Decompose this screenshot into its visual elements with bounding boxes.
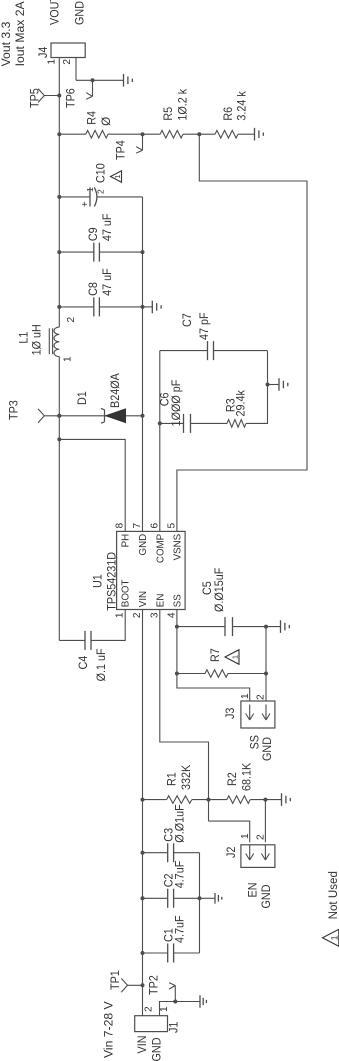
svg-text:Ø.1 uF: Ø.1 uF	[95, 648, 108, 681]
svg-text:EN: EN	[154, 594, 166, 608]
capacitor C4	[85, 631, 91, 650]
svg-text:C10: C10	[95, 163, 108, 183]
wire C1 top lead	[143, 952, 168, 954]
junction TP4 node	[141, 132, 145, 136]
wire C1 bottom lead	[174, 952, 200, 954]
svg-text:J4: J4	[37, 46, 50, 58]
ground at R2	[282, 793, 291, 806]
junction C9 / GND rail	[141, 250, 145, 254]
resistor R2 68.1K	[227, 796, 250, 804]
svg-text:47 uF: 47 uF	[101, 214, 114, 242]
wire J1 pin 1 to ground	[160, 1002, 200, 1016]
svg-text:Iout Max 2A: Iout Max 2A	[13, 0, 27, 66]
wire C3 top lead	[143, 852, 168, 854]
svg-text:SS: SS	[171, 594, 183, 607]
capacitor C9 47uF	[94, 243, 100, 262]
svg-text:BOOT: BOOT	[120, 579, 132, 607]
svg-text:J1: J1	[168, 1022, 181, 1033]
junction EN / R1 R2	[207, 798, 211, 802]
wire SS to C5	[177, 626, 225, 628]
svg-text:29.4k: 29.4k	[235, 390, 248, 417]
svg-text:GND: GND	[74, 1, 87, 25]
wire J3 pin 2 to C5 ground node	[265, 627, 267, 701]
svg-text:1: 1	[63, 356, 74, 362]
svg-text:2: 2	[96, 189, 106, 194]
wire J2 pin 2	[264, 800, 266, 843]
wire R2 to ground	[250, 799, 281, 801]
svg-text:VIN: VIN	[137, 591, 149, 607]
junction D1 anode / GND rail	[141, 414, 145, 418]
svg-text:1Ø uH: 1Ø uH	[31, 324, 44, 355]
wire VIN to R1	[143, 799, 167, 801]
svg-text:Ø.Ø15uF: Ø.Ø15uF	[213, 568, 226, 612]
junction TP5	[57, 94, 61, 98]
svg-text:VOUT: VOUT	[49, 0, 62, 25]
junction TP6	[91, 78, 95, 82]
test point TP3	[38, 409, 59, 423]
resistor R3 29.4k	[227, 420, 246, 428]
svg-text:TPS54231D: TPS54231D	[105, 552, 118, 611]
wire PH pin 8 riser	[59, 439, 125, 531]
svg-text:GND: GND	[151, 1038, 164, 1061]
svg-text:PH: PH	[120, 534, 132, 548]
capacitor C2 4.7uF	[168, 889, 174, 908]
wire input caps bottom rail	[199, 853, 201, 953]
connector J2 box	[241, 845, 275, 868]
junction C5 / SS-GND wire	[264, 625, 268, 629]
junction C3 / VIN rail	[141, 851, 145, 855]
svg-text:4.7uF: 4.7uF	[174, 915, 187, 943]
wire C9 bottom lead	[99, 251, 142, 253]
svg-text:C4: C4	[77, 655, 90, 669]
svg-text:+: +	[80, 201, 91, 207]
wire C5 to ground	[233, 626, 281, 628]
triangle not-used legend	[323, 929, 339, 946]
wire comp bottom	[246, 351, 268, 424]
jumper pin arrow (J2)	[261, 845, 269, 861]
wire C7 bottom lead	[214, 350, 268, 352]
capacitor C8 47uF	[94, 297, 100, 316]
svg-text:COMP: COMP	[154, 534, 166, 563]
svg-text:GND: GND	[260, 885, 273, 909]
wire EN to J2 pin 1	[209, 821, 250, 842]
junction C2 / ground	[198, 896, 202, 900]
resistor R4 0 ohm	[86, 130, 108, 138]
svg-text:68.1K: 68.1K	[241, 763, 254, 791]
wire VIN rail (J1 to pin2)	[142, 610, 144, 1016]
svg-text:U1: U1	[92, 574, 105, 588]
wire SS to R7	[177, 673, 205, 675]
junction C8 / VOUT rail	[57, 305, 61, 309]
wire J4 pin 2 to ground	[76, 79, 124, 81]
svg-text:2: 2	[132, 612, 143, 618]
ground at divider	[255, 128, 264, 141]
ground at J1	[200, 995, 206, 1007]
test point TP6	[86, 80, 92, 99]
junction COMP / C6 branch	[158, 421, 162, 425]
svg-text:1ØØØ pF: 1ØØØ pF	[170, 380, 183, 427]
svg-text:7: 7	[132, 523, 143, 529]
junction R1 / VIN rail	[141, 798, 145, 802]
wire C6 to R3	[191, 422, 228, 424]
svg-text:47 uF: 47 uF	[101, 268, 114, 296]
svg-text:C7: C7	[181, 313, 194, 327]
svg-text:J3: J3	[224, 708, 237, 719]
wire C8 top lead	[59, 306, 94, 308]
svg-text:332K: 332K	[180, 765, 193, 790]
junction PH riser / rail	[57, 437, 61, 441]
op-amp U1 TPS54231D box	[117, 531, 186, 609]
svg-text:2: 2	[62, 59, 73, 65]
junction TP1	[141, 983, 145, 987]
svg-text:1: 1	[240, 693, 251, 699]
resistor R5 10.2k	[160, 130, 183, 138]
wire C8 ground stem	[143, 306, 153, 308]
wire PH/VOUT rail (left of L1)	[58, 357, 60, 641]
wire C10 top lead	[59, 196, 90, 198]
svg-text:TP6: TP6	[65, 88, 78, 108]
wire C2 top lead	[143, 897, 168, 899]
junction divider / VOUT rail	[57, 132, 61, 136]
wire C9 top lead	[59, 251, 94, 253]
triangle not-used marker at R7	[225, 650, 239, 665]
svg-text:Vin 7-28 V: Vin 7-28 V	[102, 1000, 116, 1058]
wire input cap ground stem	[200, 897, 216, 899]
junction C10 / VOUT rail	[57, 195, 61, 199]
test point TP1	[121, 978, 142, 992]
connector J3 box	[241, 701, 275, 728]
wire GND rail (pin7 to C10)	[142, 197, 144, 532]
connector J4 box	[51, 43, 85, 58]
svg-text:1: 1	[240, 833, 251, 839]
svg-text:1: 1	[115, 612, 126, 618]
svg-text:2: 2	[66, 317, 77, 323]
wire R5 to R6	[183, 133, 215, 135]
svg-text:GND: GND	[261, 737, 274, 761]
resistor R6 3.24k	[215, 130, 238, 138]
svg-text:1: 1	[329, 935, 339, 940]
svg-text:C8: C8	[87, 282, 100, 296]
junction SS / R7	[175, 672, 179, 676]
svg-text:1: 1	[85, 187, 95, 192]
svg-text:R2: R2	[226, 772, 239, 786]
wire COMP to C6	[160, 422, 184, 424]
junction D1 cathode / PH rail	[57, 414, 61, 418]
svg-text:C9: C9	[87, 227, 100, 241]
ground at J4	[124, 74, 133, 87]
svg-text:1: 1	[47, 59, 58, 65]
svg-text:2: 2	[256, 694, 267, 700]
svg-text:5: 5	[166, 523, 177, 529]
wire C10 bottom lead	[97, 196, 143, 198]
svg-text:SS: SS	[249, 735, 262, 750]
svg-text:L1: L1	[18, 332, 31, 344]
svg-text:Ø.Ø1uF: Ø.Ø1uF	[174, 804, 187, 842]
wire C3 bottom lead	[174, 852, 200, 854]
svg-text:D1: D1	[76, 391, 89, 405]
svg-text:2: 2	[144, 1006, 155, 1012]
test point TP2	[169, 983, 175, 1002]
wire COMP pin 6	[159, 351, 161, 532]
wire R1 to R2	[192, 799, 227, 801]
svg-text:TP5: TP5	[29, 88, 42, 108]
svg-text:3: 3	[149, 612, 160, 618]
capacitor C5 0.015uF	[225, 617, 233, 636]
ground at C5	[281, 620, 290, 633]
wire C8 bottom lead	[99, 306, 142, 308]
wire comp ground stem	[268, 384, 280, 386]
svg-text:Ø: Ø	[100, 117, 113, 126]
svg-text:TP3: TP3	[8, 400, 21, 420]
ground at C8	[152, 301, 161, 314]
junction C2 / VIN rail	[141, 896, 145, 900]
svg-text:4: 4	[166, 612, 177, 618]
resistor R7 (not used)	[205, 670, 228, 678]
svg-text:1: 1	[113, 174, 122, 178]
svg-text:EN: EN	[247, 883, 260, 898]
junction feedback tap	[197, 132, 201, 136]
svg-text:TP1: TP1	[109, 970, 122, 990]
jumper pin arrow (J3)	[262, 705, 270, 721]
svg-text:R5: R5	[162, 107, 175, 121]
ground at comp network	[279, 378, 288, 391]
svg-text:R4: R4	[86, 110, 99, 124]
wire PH down to C4	[59, 639, 85, 641]
svg-text:1: 1	[159, 1006, 170, 1012]
triangle not-used marker at C10	[111, 171, 122, 182]
wire SS pin 4 to J3 pin 1	[177, 610, 250, 702]
svg-text:47 pF: 47 pF	[198, 312, 211, 340]
wire VOUT to R4	[59, 133, 86, 135]
wire R4 to R5	[108, 133, 160, 135]
capacitor C3 Ø.Ø1uF	[168, 843, 174, 862]
wire R7 to SS-GND wire	[228, 673, 266, 675]
svg-text:J2: J2	[225, 847, 238, 858]
svg-text:GND: GND	[137, 533, 149, 555]
svg-text:VSNS: VSNS	[171, 534, 183, 561]
wire R6 to ground	[238, 133, 254, 135]
connector J1 box	[135, 1016, 168, 1032]
svg-text:R7: R7	[209, 648, 222, 662]
svg-text:VIN: VIN	[136, 1036, 149, 1054]
resistor R1 332K	[167, 796, 192, 804]
wire VOUT rail (right of L1)	[58, 58, 60, 328]
svg-text:B24ØA: B24ØA	[109, 373, 122, 408]
svg-text:Vout 3.3: Vout 3.3	[0, 21, 13, 66]
svg-text:1Ø.2 k: 1Ø.2 k	[177, 89, 190, 121]
junction comp ground	[266, 383, 270, 387]
svg-text:R6: R6	[222, 107, 235, 121]
wire EN pin 3 route	[160, 610, 209, 822]
inductor L1 10uH	[54, 327, 59, 357]
diode D1 B240A	[59, 415, 142, 417]
svg-text:3.24 k: 3.24 k	[236, 91, 249, 121]
ground at input caps	[215, 893, 222, 904]
wire C2 bottom lead	[174, 897, 200, 899]
svg-text:R1: R1	[166, 772, 179, 786]
svg-text:TP4: TP4	[115, 140, 128, 160]
test point TP4	[136, 134, 142, 153]
capacitor C6 1000pF	[184, 414, 191, 433]
wire feedback VSNS route	[177, 134, 307, 531]
wire C7 top lead	[160, 350, 208, 352]
test point TP5	[38, 89, 59, 103]
wire J4 pin 2	[75, 58, 77, 81]
svg-text:2: 2	[256, 834, 267, 840]
wire C4 to BOOT pin 1	[91, 610, 125, 641]
junction R2 / J2 pin 2	[263, 798, 267, 802]
capacitor C7 47pF	[208, 341, 214, 360]
junction C1 / VIN rail	[141, 951, 145, 955]
svg-text:8: 8	[115, 523, 126, 529]
svg-text:Not Used: Not Used	[326, 871, 339, 919]
junction C9 / VOUT rail	[57, 250, 61, 254]
jumper pin arrow (J3)	[246, 705, 254, 721]
capacitor C1 4.7uF	[168, 944, 174, 963]
junction TP2	[173, 1000, 177, 1004]
junction R7 / SS-GND wire	[264, 672, 268, 676]
svg-text:4.7uF: 4.7uF	[174, 861, 187, 889]
jumper pin arrow (J2)	[246, 845, 254, 861]
junction C8 / GND rail	[141, 305, 145, 309]
capacitor C10 (polarized, not used)	[89, 187, 91, 206]
svg-text:6: 6	[149, 523, 160, 529]
svg-text:1: 1	[231, 655, 240, 659]
svg-text:TP2: TP2	[148, 975, 161, 995]
junction SS / C5	[175, 625, 179, 629]
